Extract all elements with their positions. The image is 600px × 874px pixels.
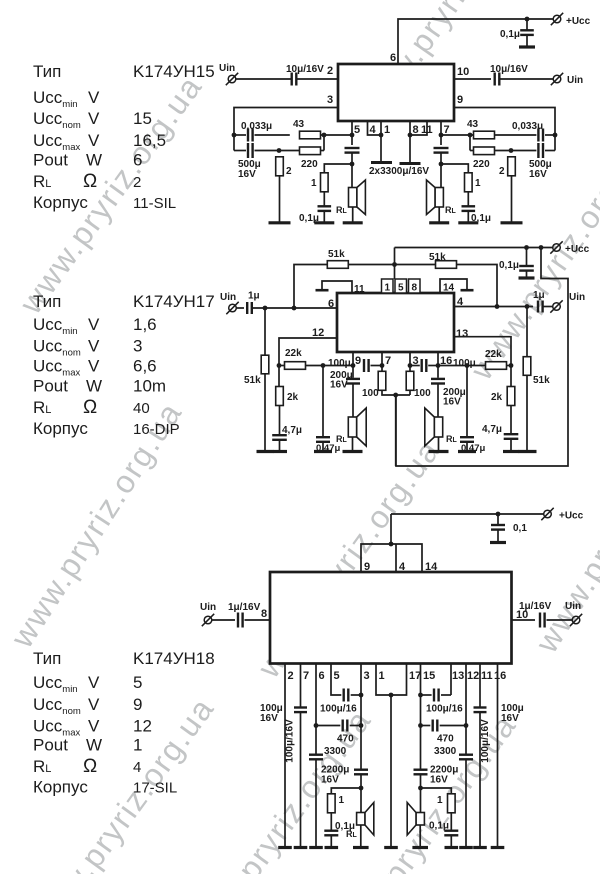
junction 43-220 right xyxy=(469,135,471,151)
capacitor 200u left c2 xyxy=(346,379,360,384)
node pin16 row xyxy=(436,363,441,368)
spec table: Uccnom row xyxy=(33,109,152,131)
spec table: Uccmin row xyxy=(33,673,142,695)
label 3300 right xyxy=(434,746,457,757)
wire rail up c3 xyxy=(390,514,392,544)
svg-text:11-SIL: 11-SIL xyxy=(133,195,176,212)
wire 0,1u to gnd left c3 xyxy=(330,835,332,847)
wire pin4 down xyxy=(368,121,382,135)
ground 0,1u right c3 xyxy=(445,846,459,849)
pin 14 label c3 xyxy=(425,561,438,573)
label 1u/16V left c3 xyxy=(228,602,261,613)
svg-text:51k: 51k xyxy=(533,375,550,386)
pin 16 label c2 xyxy=(440,355,452,367)
node pin5/speaker left xyxy=(350,162,355,167)
capacitor 100u right c2 xyxy=(422,359,427,372)
loudspeaker RL right c2 xyxy=(425,408,443,446)
svg-text:Uin: Uin xyxy=(567,75,583,86)
capacitor 0,1u top right xyxy=(520,30,534,35)
watermark xyxy=(326,707,523,874)
spec table: Pout row xyxy=(33,736,142,755)
node pin7/speaker right xyxy=(439,162,444,167)
Uin label c2 left xyxy=(220,292,236,303)
label 0,47u left xyxy=(316,443,340,454)
resistor 51k feedback left xyxy=(327,261,348,269)
label 16V 2200 right xyxy=(430,775,448,786)
ground pin2 c3 xyxy=(278,846,292,849)
node pin4/rail2 xyxy=(495,304,500,309)
svg-text:Корпус: Корпус xyxy=(33,193,88,212)
ground r2 left xyxy=(269,221,291,224)
resistor 51k input left xyxy=(261,355,269,374)
capacitor 3300u plate right (to gnd) xyxy=(400,162,421,165)
svg-text:51k: 51k xyxy=(429,252,446,263)
loudspeaker RL left c2 xyxy=(348,408,366,446)
resistor 100 right xyxy=(406,371,414,390)
resistor 1 left xyxy=(321,173,329,192)
wire 2k to 4,7u right xyxy=(510,406,512,435)
svg-text:Uin: Uin xyxy=(219,63,235,74)
label 51k input right xyxy=(533,375,550,386)
label 16V right c1 xyxy=(529,169,547,180)
wire pin7 cap to node xyxy=(440,153,442,188)
wire 0,1 to tbar c3 xyxy=(497,530,499,542)
label 220 left xyxy=(301,159,318,170)
capacitor 0,1u left c3 xyxy=(324,831,338,836)
capacitor 1u/16V right c3 xyxy=(540,613,545,628)
ground speaker left c1 xyxy=(343,221,363,224)
capacitor 1u right c2 xyxy=(538,301,543,313)
svg-text:6: 6 xyxy=(319,670,325,682)
pin 8 label c2 xyxy=(412,283,418,294)
spec table: Uccnom row xyxy=(33,337,142,359)
svg-text:1: 1 xyxy=(437,795,443,806)
label 16V right c2 xyxy=(443,397,461,408)
wire pin1 down xyxy=(380,121,382,162)
wire speaker right to gnd c2 xyxy=(438,437,440,452)
watermark xyxy=(24,690,221,874)
svg-text:Корпус: Корпус xyxy=(33,778,88,797)
capacitor 500u right xyxy=(538,143,543,158)
wire 500u to r220 right xyxy=(495,150,537,152)
pin 12 label c2 xyxy=(312,327,324,339)
wire pin11 down xyxy=(479,664,481,708)
wire pin16 down xyxy=(437,352,439,378)
terminal +Ucc c2 xyxy=(550,241,562,253)
junction 43-220 left xyxy=(323,135,325,151)
svg-text:15: 15 xyxy=(423,670,435,682)
wire 100u/16 to pin3 xyxy=(351,694,361,696)
svg-text:Pout: Pout xyxy=(33,736,68,755)
pin 13 label c3 xyxy=(452,670,464,682)
wire 2k to 4,7u left xyxy=(279,406,281,436)
svg-text:10μ/16V: 10μ/16V xyxy=(490,64,528,75)
capacitor 0,033u right xyxy=(538,129,543,142)
wire pin6 to +Ucc rail xyxy=(398,19,553,64)
terminal Uin c3 left xyxy=(202,614,214,626)
wire pin2 down xyxy=(284,664,286,848)
wire 1u to pin6 xyxy=(253,307,337,309)
wire r100 left to join xyxy=(382,390,410,395)
wire rail1 to +Ucc xyxy=(395,247,553,249)
label 0,1u c2 xyxy=(499,260,519,271)
label 1 left c3 xyxy=(339,795,345,806)
svg-text:5: 5 xyxy=(398,283,404,294)
svg-text:3300: 3300 xyxy=(434,746,457,757)
capacitor 4,7u right xyxy=(504,434,519,439)
svg-text:Корпус: Корпус xyxy=(33,419,88,438)
capacitor 10u/16V left c1 xyxy=(292,73,297,86)
svg-text:16V: 16V xyxy=(430,775,448,786)
svg-text:+Ucc: +Ucc xyxy=(559,511,584,522)
ground speaker left c2 xyxy=(343,450,363,453)
resistor 2 right xyxy=(508,157,516,176)
wire r2 right to ground xyxy=(511,176,513,223)
svg-text:4: 4 xyxy=(457,296,464,308)
wire 0.1u to ground xyxy=(526,35,528,46)
resistor 1 left c3 xyxy=(328,794,336,813)
spec table: Pout row xyxy=(33,151,142,170)
resistor 43 right xyxy=(474,131,495,139)
svg-text:V: V xyxy=(88,673,100,692)
op-amp IC3 K174УН18 xyxy=(270,572,512,664)
wire pin4 row xyxy=(454,306,533,308)
svg-text:16: 16 xyxy=(494,670,506,682)
wire pin11 down xyxy=(410,121,427,135)
pin 9 label c2 xyxy=(355,355,361,367)
svg-text:V: V xyxy=(88,88,100,107)
loudspeaker RL right c3 xyxy=(407,803,424,836)
svg-text:5: 5 xyxy=(354,124,360,136)
capacitor 0,1u left c1 xyxy=(318,206,332,211)
spec table: Тип row xyxy=(33,649,215,668)
spec table: Uccmax row xyxy=(33,357,157,379)
wire pin10 to cap c3 xyxy=(512,619,536,621)
svg-text:13: 13 xyxy=(456,328,468,340)
svg-text:470: 470 xyxy=(437,734,454,745)
wire top bracket c3 xyxy=(361,544,422,572)
pin 11 label c1 xyxy=(421,124,433,136)
node pin12/470 xyxy=(464,723,469,728)
wire r1 to 0,1u left xyxy=(323,192,325,207)
node resistor 2 right xyxy=(509,148,514,153)
pin 11 label c3 xyxy=(481,670,493,682)
capacitor 500u left xyxy=(248,143,253,158)
svg-text:W: W xyxy=(86,736,102,755)
capacitor 1u/16V left c3 xyxy=(238,613,243,628)
pin 13 label c2 xyxy=(456,328,468,340)
svg-text:9: 9 xyxy=(364,561,370,573)
wire speaker to gnd left xyxy=(352,207,354,223)
capacitor 0,033u left xyxy=(248,129,253,142)
ground 0,1u c1 xyxy=(519,45,535,48)
svg-text:16-DIP: 16-DIP xyxy=(133,421,180,438)
label 200u right c2 xyxy=(443,387,466,398)
label 500u right xyxy=(529,159,552,170)
label 4,7u left xyxy=(282,425,302,436)
svg-text:1μ: 1μ xyxy=(533,290,545,301)
resistor 1 right c3 xyxy=(448,794,456,813)
node r43/pin7 xyxy=(468,133,473,138)
terminal +Ucc c3 xyxy=(541,508,553,520)
ground 0,1u right c1 xyxy=(458,221,478,224)
wire r100 right to join xyxy=(409,390,411,395)
svg-text:16V: 16V xyxy=(330,380,348,391)
op-amp IC2 K174УН17 xyxy=(337,293,454,352)
label 470 right xyxy=(437,734,454,745)
svg-text:470: 470 xyxy=(337,734,354,745)
node left vertical row1 xyxy=(232,133,237,138)
spec table: Тип row xyxy=(33,62,215,81)
wire pins1-5 up xyxy=(394,248,396,280)
resistor 2 left xyxy=(276,157,284,176)
wire pin4 up c3 xyxy=(395,544,397,572)
svg-text:V: V xyxy=(88,695,100,714)
spec table: RL row xyxy=(33,756,141,777)
node pin4/pin1 xyxy=(379,133,384,138)
spec table: Корпус row xyxy=(33,778,177,797)
label 2k left xyxy=(287,392,299,403)
wire 470 right a xyxy=(421,725,431,727)
pin 6 label xyxy=(390,52,396,64)
label 1u/16V right c3 xyxy=(519,601,552,612)
svg-text:2: 2 xyxy=(286,166,292,177)
wire 0,1u to gnd right c3 xyxy=(450,835,452,847)
label 10u/16V right c1 xyxy=(490,64,528,75)
label 51k input left xyxy=(244,375,261,386)
resistor 43 left xyxy=(300,131,321,139)
node pin1/17 drop xyxy=(389,693,394,698)
capacitor 470 left xyxy=(343,720,348,732)
capacitor 0,47u left xyxy=(316,437,330,442)
pin 5 label c2 xyxy=(398,283,404,294)
resistor 2k right xyxy=(507,387,515,406)
capacitor series pin5 xyxy=(345,148,360,153)
pin 8 label c1 xyxy=(413,124,419,136)
svg-text:10m: 10m xyxy=(133,377,166,396)
label 1 right c1 xyxy=(475,178,481,189)
pin 2 label c1 xyxy=(327,65,333,77)
svg-text:1μ: 1μ xyxy=(248,291,260,302)
wire 500u to r220 xyxy=(255,150,300,152)
wire node to r1 right c3 xyxy=(421,788,452,794)
ground 0,47u right c2 xyxy=(458,450,476,453)
ground 51k right c2 xyxy=(519,450,537,453)
terminal +Ucc c1 xyxy=(551,13,563,25)
svg-text:Uin: Uin xyxy=(565,601,581,612)
wire supply return wrap xyxy=(396,248,568,467)
svg-text:14: 14 xyxy=(425,561,438,573)
wire pin6 down c3 xyxy=(315,664,317,755)
watermark xyxy=(3,395,189,654)
label 51k feedback left xyxy=(328,249,345,260)
label 100 left xyxy=(362,388,379,399)
node pin6/470 xyxy=(314,723,319,728)
svg-text:16,5: 16,5 xyxy=(133,131,166,150)
ground speaker left c3 xyxy=(353,846,369,849)
resistor 22k left xyxy=(285,362,306,370)
ground pin11 c3 xyxy=(473,846,487,849)
wire row1 right segment xyxy=(545,134,555,136)
svg-text:Pout: Pout xyxy=(33,377,68,396)
svg-text:1: 1 xyxy=(133,736,142,755)
pin 1 label c2 xyxy=(385,283,391,294)
svg-text:K174УН18: K174УН18 xyxy=(133,649,215,668)
+Ucc label c3 xyxy=(559,511,584,522)
resistor 100 left xyxy=(378,371,386,390)
wire node to r1 left c3 xyxy=(331,788,361,794)
label 100u left c2 xyxy=(328,358,351,369)
ground center c3 xyxy=(384,846,398,849)
wire r43 to node xyxy=(321,134,353,136)
svg-text:Ω: Ω xyxy=(83,756,97,777)
svg-text:51k: 51k xyxy=(328,249,345,260)
svg-text:+Ucc: +Ucc xyxy=(565,244,590,255)
wire 200u to speaker right xyxy=(437,385,439,418)
label 2k right xyxy=(491,392,503,403)
svg-text:22k: 22k xyxy=(485,349,502,360)
svg-text:3: 3 xyxy=(327,94,333,106)
wire 4,7u to gnd left xyxy=(279,440,281,452)
ground 0,1u left c3 xyxy=(325,846,339,849)
svg-text:0,033μ: 0,033μ xyxy=(241,121,272,132)
svg-text:4,7μ: 4,7μ xyxy=(282,425,302,436)
wire speaker to gnd right xyxy=(438,207,440,223)
pin 17 label c3 xyxy=(409,670,421,682)
spec table: Uccmax row xyxy=(33,131,166,153)
Uin label c2 right xyxy=(569,292,585,303)
label 43 right xyxy=(467,119,479,130)
svg-text:0,1: 0,1 xyxy=(513,523,527,534)
node pin7/row1 xyxy=(439,133,444,138)
wire 0,1u to tbar c2 xyxy=(526,271,528,278)
wire pin16 row to 22k xyxy=(438,365,486,367)
pin 5 label c3 xyxy=(334,670,340,682)
label 1 right c3 xyxy=(437,795,443,806)
node pin4/51k right xyxy=(525,304,530,309)
pin 7 label c1 xyxy=(444,124,450,136)
svg-text:1μ/16V: 1μ/16V xyxy=(519,601,552,612)
svg-text:V: V xyxy=(88,131,100,150)
svg-text:K174УН17: K174УН17 xyxy=(133,292,215,311)
node 0,47u left xyxy=(321,363,326,368)
wire 3300 to gnd left xyxy=(315,759,317,847)
svg-text:1: 1 xyxy=(475,178,481,189)
wire cap to Uin right xyxy=(500,78,553,80)
label 500u left xyxy=(238,159,261,170)
wire r1 to 0,1u left c3 xyxy=(330,813,332,831)
label 2200u right xyxy=(430,765,458,776)
wire cap to resistor 43 right xyxy=(495,134,537,136)
capacitor 470 right xyxy=(433,720,438,732)
wire pin5 down c3 xyxy=(331,664,341,696)
label 0,033u right xyxy=(512,121,543,132)
svg-text:16V: 16V xyxy=(321,775,339,786)
pin 14 label c2 xyxy=(443,283,455,294)
svg-text:8: 8 xyxy=(261,608,267,620)
svg-text:1μ/16V: 1μ/16V xyxy=(228,602,261,613)
svg-text:9: 9 xyxy=(355,355,361,367)
node pin15/470 xyxy=(418,723,423,728)
pin 6 label c3 xyxy=(319,670,325,682)
wire row1 left segment xyxy=(234,134,246,136)
spec table: Uccmax row xyxy=(33,717,152,739)
node +Ucc rail / 0.1u xyxy=(525,17,530,22)
wire r220 right join xyxy=(321,150,325,152)
svg-text:6,6: 6,6 xyxy=(133,357,157,376)
svg-text:2x3300μ/16V: 2x3300μ/16V xyxy=(369,166,429,177)
label 2x3300u/16V xyxy=(369,166,429,177)
wire rail2 middle xyxy=(348,264,435,266)
wire 100u right to pin16 xyxy=(428,365,438,367)
Uin label c3 right xyxy=(565,601,581,612)
wire 0,47u left stem xyxy=(322,366,324,438)
label 0,1u left c1 xyxy=(299,213,319,224)
svg-text:16V: 16V xyxy=(501,713,519,724)
pin 15 label c3 xyxy=(423,670,435,682)
capacitor 3300 left xyxy=(309,755,323,760)
svg-text:1: 1 xyxy=(311,178,317,189)
svg-text:+Ucc: +Ucc xyxy=(566,16,591,27)
wire node to r1 left xyxy=(324,164,352,173)
svg-text:100μ/16V: 100μ/16V xyxy=(285,719,296,763)
wire r43 to pin7 node xyxy=(441,134,474,136)
svg-text:11: 11 xyxy=(354,284,365,295)
svg-text:100μ: 100μ xyxy=(328,358,351,369)
ac-ground 0,1u c2 xyxy=(519,276,535,279)
ground 51k left c2 xyxy=(257,450,274,453)
label 0,033u left xyxy=(241,121,272,132)
node pin5/row1 xyxy=(350,133,355,138)
svg-text:2k: 2k xyxy=(287,392,299,403)
capacitor 0,1u right c3 xyxy=(444,831,458,836)
svg-text:2: 2 xyxy=(288,670,294,682)
wire input left to cap xyxy=(236,78,292,80)
wire 200u to speaker left xyxy=(352,385,354,418)
svg-text:12: 12 xyxy=(133,717,152,736)
pin 10 label c1 xyxy=(457,66,469,78)
svg-text:43: 43 xyxy=(467,119,479,130)
svg-text:100μ/16: 100μ/16 xyxy=(320,704,357,715)
svg-text:43: 43 xyxy=(293,119,305,130)
ground speaker right c1 xyxy=(429,221,449,224)
node speaker left c3 xyxy=(359,786,364,791)
wire 0.1u cap stem xyxy=(526,19,528,30)
ground pin12 c3 xyxy=(459,846,473,849)
svg-text:V: V xyxy=(88,357,100,376)
pin 11 label c2 xyxy=(354,284,365,295)
label 1u left c2 xyxy=(248,291,260,302)
node pin9 row xyxy=(351,363,356,368)
wire pin13 row xyxy=(454,337,511,366)
spec table: Pout row xyxy=(33,377,166,396)
pin 3 label c3 xyxy=(364,670,370,682)
label RL right c2 xyxy=(446,434,458,444)
wire 0,47u right stem xyxy=(466,366,468,438)
svg-text:1,6: 1,6 xyxy=(133,315,157,334)
label 16V pin11 xyxy=(501,713,519,724)
ground speaker right c2 xyxy=(429,450,449,453)
wire pin10 to cap xyxy=(454,78,491,80)
svg-text:12: 12 xyxy=(312,327,324,339)
resistor 51k feedback right xyxy=(436,261,457,269)
loudspeaker RL left c3 xyxy=(357,803,374,836)
wire 22k to 0,47 node left xyxy=(306,365,354,367)
wire input to cap c3 left xyxy=(212,619,235,621)
svg-text:10: 10 xyxy=(457,66,469,78)
terminal Uin c2 right xyxy=(550,300,562,312)
svg-text:5: 5 xyxy=(334,670,340,682)
